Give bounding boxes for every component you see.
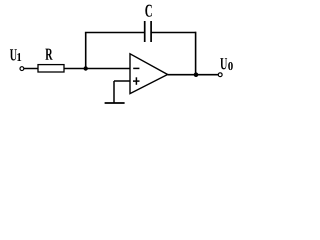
wire input terminal to resistor (24, 68, 38, 70)
wire feedback top right (capacitor to right vertical) (151, 32, 196, 34)
output terminal (218, 73, 222, 77)
wire op-amp output to terminal (168, 74, 219, 76)
wire resistor to op-amp inverting input (64, 68, 132, 70)
node U0 label (220, 58, 233, 70)
input terminal (20, 67, 24, 71)
op-amp inverting input minus sign (133, 67, 139, 69)
resistor R (38, 65, 64, 72)
resistor R value label (45, 49, 52, 60)
op-amp non-inverting input plus sign (133, 77, 140, 85)
wire feedback top left (to capacitor) (85, 32, 145, 34)
wire feedback right vertical (195, 32, 197, 75)
node U1 label (10, 49, 21, 61)
capacitor C (145, 21, 151, 42)
ground (105, 102, 125, 104)
junction node on output wire (194, 72, 199, 77)
op-amp U1 triangle (130, 54, 168, 94)
junction node on input wire (84, 66, 88, 70)
capacitor C value label (145, 5, 151, 17)
wire feedback left vertical (85, 33, 87, 69)
wire op-amp non-inverting input to ground (114, 81, 131, 103)
